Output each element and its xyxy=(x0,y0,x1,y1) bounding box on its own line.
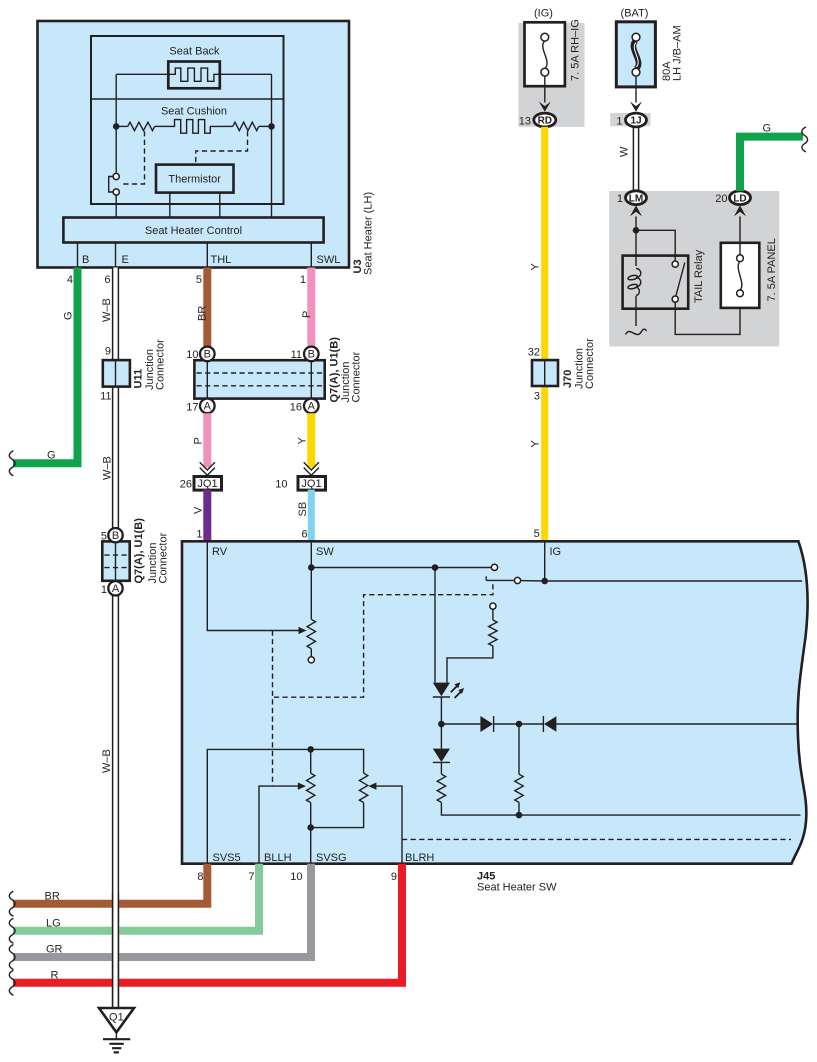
wire IG internal xyxy=(544,541,546,581)
svg-text:G: G xyxy=(47,450,56,462)
grey strip behind connector 1J xyxy=(610,113,650,126)
svg-text:B: B xyxy=(204,349,211,361)
svg-text:SVSG: SVSG xyxy=(316,852,347,864)
node pot top junction xyxy=(307,746,314,753)
wire BR brown bottom xyxy=(13,864,207,904)
svg-text:11: 11 xyxy=(100,391,111,403)
svg-text:Seat Heater SW: Seat Heater SW xyxy=(477,882,557,894)
svg-text:R: R xyxy=(51,970,59,982)
svg-text:4: 4 xyxy=(67,274,73,286)
svg-text:SW: SW xyxy=(316,546,334,558)
svg-text:(IG): (IG) xyxy=(534,8,553,20)
wire LG light green bottom xyxy=(13,864,259,931)
svg-text:7. 5A RH–IG: 7. 5A RH–IG xyxy=(570,19,582,81)
svg-text:Seat Heater (LH): Seat Heater (LH) xyxy=(363,192,375,275)
resistor middle left xyxy=(440,762,442,774)
node bottom row junction xyxy=(516,812,523,819)
wire fuse to RD connector xyxy=(544,76,546,102)
svg-text:J70: J70 xyxy=(562,370,574,388)
svg-text:17: 17 xyxy=(186,402,198,414)
svg-text:9: 9 xyxy=(391,871,397,883)
svg-text:10: 10 xyxy=(275,479,287,491)
svg-text:Connector: Connector xyxy=(584,338,596,389)
svg-text:G: G xyxy=(763,123,772,135)
fusible link 80A LH J/B-AM box xyxy=(616,22,655,87)
wire SVSG internal xyxy=(310,828,312,864)
svg-text:SWL: SWL xyxy=(317,254,341,266)
wire SVS5 internal xyxy=(207,749,363,863)
node IG junction xyxy=(541,578,548,585)
node SW junction xyxy=(308,564,315,571)
junction connector Q7(A) U1(B) wide box xyxy=(194,360,324,398)
svg-text:13: 13 xyxy=(519,116,531,128)
svg-text:B: B xyxy=(82,254,89,266)
svg-text:1: 1 xyxy=(616,116,622,128)
svg-text:A: A xyxy=(308,401,316,413)
wire SW internal xyxy=(310,541,312,619)
svg-text:W: W xyxy=(619,146,631,157)
connector oval RD pin 13 xyxy=(534,113,556,127)
wire bottom row to right edge xyxy=(441,802,800,815)
ground Q1 triangle xyxy=(99,1008,134,1032)
wire left vertical inside U3 xyxy=(115,74,117,173)
wire branch to relay contact xyxy=(636,230,675,261)
svg-text:1: 1 xyxy=(617,193,623,205)
node seat cushion right junction xyxy=(268,123,275,130)
node relay branch xyxy=(633,227,640,234)
connector circle A pin 16 xyxy=(304,399,319,414)
node diode row left xyxy=(438,721,445,728)
svg-text:U11: U11 xyxy=(133,369,145,389)
mechanical link right resistor to thermistor (dashed) xyxy=(196,131,248,164)
svg-text:SVS5: SVS5 xyxy=(213,852,241,864)
component U3 Seat Heater (LH) outer box xyxy=(38,21,350,268)
wire R red bottom xyxy=(13,864,402,983)
wire break squiggle R xyxy=(9,970,15,995)
wire break squiggle GR xyxy=(9,945,15,970)
svg-text:(BAT): (BAT) xyxy=(621,8,649,20)
resistor seat cushion right xyxy=(233,122,259,130)
svg-text:RV: RV xyxy=(212,546,228,558)
wire SB sky blue to J45 xyxy=(308,490,315,542)
connector arrow into JQ1 left xyxy=(200,462,215,470)
grey background of TAIL relay / panel fuse block xyxy=(609,191,779,346)
switch blade xyxy=(486,576,514,580)
svg-text:JQ1: JQ1 xyxy=(197,478,217,490)
resistor middle right xyxy=(515,774,523,802)
svg-text:BR: BR xyxy=(197,306,209,321)
wire P pink from terminal SWL xyxy=(307,268,315,348)
wire break squiggle green left xyxy=(9,451,15,476)
component J45 Seat Heater SW box xyxy=(182,541,808,863)
wire W white double line xyxy=(632,127,634,191)
connector circle B pin 11 xyxy=(304,347,319,362)
svg-text:7. 5A PANEL: 7. 5A PANEL xyxy=(766,238,778,301)
wire RV internal xyxy=(207,541,299,630)
ground stem and hatching xyxy=(115,1032,117,1039)
svg-text:LM: LM xyxy=(629,193,643,204)
fuse 7.5A RH-IG box xyxy=(525,22,565,86)
svg-text:BR: BR xyxy=(45,891,60,903)
connector JQ1 left box xyxy=(194,477,222,491)
grey background of IG fuse block xyxy=(518,23,584,127)
svg-text:JQ1: JQ1 xyxy=(301,478,321,490)
svg-text:1: 1 xyxy=(101,584,107,596)
svg-text:LG: LG xyxy=(46,918,61,930)
wire GR gray bottom xyxy=(13,864,311,957)
thermistor box xyxy=(156,165,234,193)
svg-text:Y: Y xyxy=(530,263,542,271)
mechanical link dashed bottom right xyxy=(402,838,791,840)
svg-text:BLRH: BLRH xyxy=(405,852,434,864)
wire Y yellow to JQ1 xyxy=(307,413,315,467)
wire BLLH internal with wiper arrow xyxy=(259,786,298,864)
wire break squiggle BR xyxy=(9,891,15,916)
connector circle B pin 10 xyxy=(200,347,215,362)
wire seat cushion row xyxy=(116,125,128,127)
svg-text:5: 5 xyxy=(534,528,540,540)
connector oval LM pin 1 xyxy=(626,191,647,205)
wire coil to ground squiggle xyxy=(635,296,637,326)
mechanical link left resistor to switch (dashed) xyxy=(121,131,145,184)
wire middle column down xyxy=(518,724,520,774)
node diode row middle xyxy=(516,721,523,728)
svg-text:Seat Cushion: Seat Cushion xyxy=(161,106,227,118)
svg-text:1: 1 xyxy=(196,528,202,540)
wire break squiggle LG xyxy=(9,918,15,943)
svg-text:7: 7 xyxy=(248,871,254,883)
svg-text:P: P xyxy=(301,311,313,318)
svg-text:B: B xyxy=(308,349,315,361)
terminal line SWL xyxy=(310,243,312,268)
svg-text:W–B: W–B xyxy=(101,749,113,773)
wire fuse to 1J connector xyxy=(635,76,637,102)
wire W-B crossing over bottom wires xyxy=(113,893,118,1008)
connector circle A pin 17 xyxy=(200,399,215,414)
svg-text:Q1: Q1 xyxy=(109,1012,124,1024)
wire G green top right xyxy=(740,137,803,191)
svg-text:6: 6 xyxy=(301,528,307,540)
svg-text:8: 8 xyxy=(197,871,203,883)
wire seat back element leads xyxy=(116,73,168,75)
connector arrow 1J xyxy=(630,102,642,112)
svg-text:11: 11 xyxy=(291,349,302,361)
potentiometer bottom left xyxy=(307,773,315,802)
node pot bottom junction xyxy=(307,824,314,831)
wire Y yellow main xyxy=(541,127,548,360)
junction connector U11 box xyxy=(103,360,130,387)
svg-text:1: 1 xyxy=(300,274,306,286)
svg-text:Y: Y xyxy=(530,440,542,448)
connector arrow into JQ1 right xyxy=(304,462,319,470)
connector oval LD pin 20 xyxy=(730,191,751,205)
wire W-B white-black from terminal E to ground xyxy=(113,268,118,1009)
svg-text:B: B xyxy=(112,530,119,542)
thermo switch inside U3 xyxy=(109,177,113,193)
svg-text:SB: SB xyxy=(297,502,309,517)
wire LED cathode down xyxy=(440,697,442,724)
svg-text:Connector: Connector xyxy=(351,351,363,402)
seat heater control box xyxy=(63,218,323,243)
wire right vertical inside U3 xyxy=(271,74,273,217)
svg-text:1J: 1J xyxy=(630,116,641,127)
svg-text:Q7(A), U1(B): Q7(A), U1(B) xyxy=(329,337,341,403)
terminal line E xyxy=(115,243,117,268)
wire P pink to JQ1 xyxy=(203,413,211,467)
wire thermistor leads xyxy=(169,193,171,218)
svg-text:BLLH: BLLH xyxy=(264,852,292,864)
svg-text:Seat Back: Seat Back xyxy=(169,46,220,58)
resistor pull-up with contact xyxy=(490,603,496,609)
LED indicator xyxy=(433,683,450,697)
svg-text:W–B: W–B xyxy=(102,456,114,480)
svg-text:Seat Heater Control: Seat Heater Control xyxy=(145,225,242,237)
wire diode row to right edge xyxy=(556,723,799,725)
fuse 7.5A PANEL box xyxy=(721,243,760,308)
relay coil xyxy=(636,269,641,296)
diode 2 pointing left xyxy=(519,723,543,725)
wire G green from terminal B xyxy=(13,268,78,464)
svg-text:32: 32 xyxy=(528,346,540,358)
wire IG row to right edge xyxy=(545,580,802,582)
svg-text:THL: THL xyxy=(211,254,232,266)
svg-text:3: 3 xyxy=(534,391,540,403)
svg-text:W–B: W–B xyxy=(101,298,113,322)
connector arrow LM xyxy=(630,205,642,216)
svg-text:9: 9 xyxy=(105,346,111,358)
wire panel fuse to LD xyxy=(739,216,741,254)
svg-text:10: 10 xyxy=(186,349,198,361)
svg-text:G: G xyxy=(63,311,75,320)
junction connector J70 box xyxy=(532,360,558,386)
potentiometer top resistor xyxy=(307,619,315,648)
svg-text:26: 26 xyxy=(180,479,192,491)
wire to diode 1 xyxy=(441,723,480,725)
relay TAIL Relay box xyxy=(623,256,689,309)
junction connector Q7(A) U1(B) small box on W-B xyxy=(102,541,129,580)
relay contact xyxy=(676,263,685,297)
connector arrow RD xyxy=(539,102,551,112)
seat back / seat cushion inner enclosure xyxy=(91,36,284,204)
svg-text:10: 10 xyxy=(290,871,302,883)
svg-text:E: E xyxy=(122,254,129,266)
connector arrow LD xyxy=(734,205,746,216)
mechanical link switch to potentiometers (dashed) xyxy=(273,584,493,697)
svg-text:LD: LD xyxy=(733,193,746,204)
wire break squiggle green right xyxy=(802,127,808,152)
svg-text:IG: IG xyxy=(550,546,562,558)
connector JQ1 right box xyxy=(298,477,326,491)
svg-text:Connector: Connector xyxy=(155,339,167,390)
diode 1 pointing right xyxy=(480,716,493,732)
svg-text:16: 16 xyxy=(290,402,302,414)
node LED branch junction xyxy=(432,564,439,571)
svg-text:20: 20 xyxy=(715,193,727,205)
wire BLRH internal with wiper arrow xyxy=(376,786,402,864)
svg-text:A: A xyxy=(204,401,212,413)
svg-text:P: P xyxy=(193,437,205,444)
svg-text:Y: Y xyxy=(297,437,309,445)
heater element seat back xyxy=(168,62,220,89)
wire contact to panel fuse xyxy=(675,296,740,334)
ground squiggle under coil xyxy=(626,329,647,334)
wire SW row to contact xyxy=(311,567,491,569)
svg-text:Q7(A), U1(B): Q7(A), U1(B) xyxy=(133,518,145,584)
wire LM to relay xyxy=(635,216,637,266)
connector circle B pin 5 xyxy=(108,528,122,542)
node seat cushion left junction xyxy=(113,123,120,130)
svg-text:TAIL Relay: TAIL Relay xyxy=(693,249,705,303)
svg-text:Connector: Connector xyxy=(158,532,170,583)
wire V violet to J45 xyxy=(203,490,211,542)
connector circle A pin 1 xyxy=(108,581,122,595)
connector oval 1J pin 1 xyxy=(626,113,647,127)
wire BR brown from terminal THL xyxy=(203,268,211,348)
diode 3 pointing down xyxy=(440,724,442,749)
terminal line THL xyxy=(206,243,208,268)
svg-text:V: V xyxy=(193,506,205,514)
svg-text:5: 5 xyxy=(101,531,107,543)
svg-text:RD: RD xyxy=(538,116,552,127)
svg-text:5: 5 xyxy=(196,274,202,286)
svg-text:GR: GR xyxy=(46,944,63,956)
svg-text:Thermistor: Thermistor xyxy=(168,174,221,186)
terminal line B xyxy=(77,243,79,268)
svg-text:6: 6 xyxy=(104,274,110,286)
svg-text:A: A xyxy=(112,583,120,595)
heater element seat cushion xyxy=(166,120,223,134)
wire pot bottoms join xyxy=(311,803,364,828)
wire LED feed xyxy=(434,568,436,683)
wiper arrow into potentiometer top xyxy=(299,627,307,634)
svg-text:LH J/B–AM: LH J/B–AM xyxy=(672,25,684,81)
resistor seat cushion left xyxy=(128,122,155,130)
potentiometer bottom right xyxy=(359,773,367,802)
